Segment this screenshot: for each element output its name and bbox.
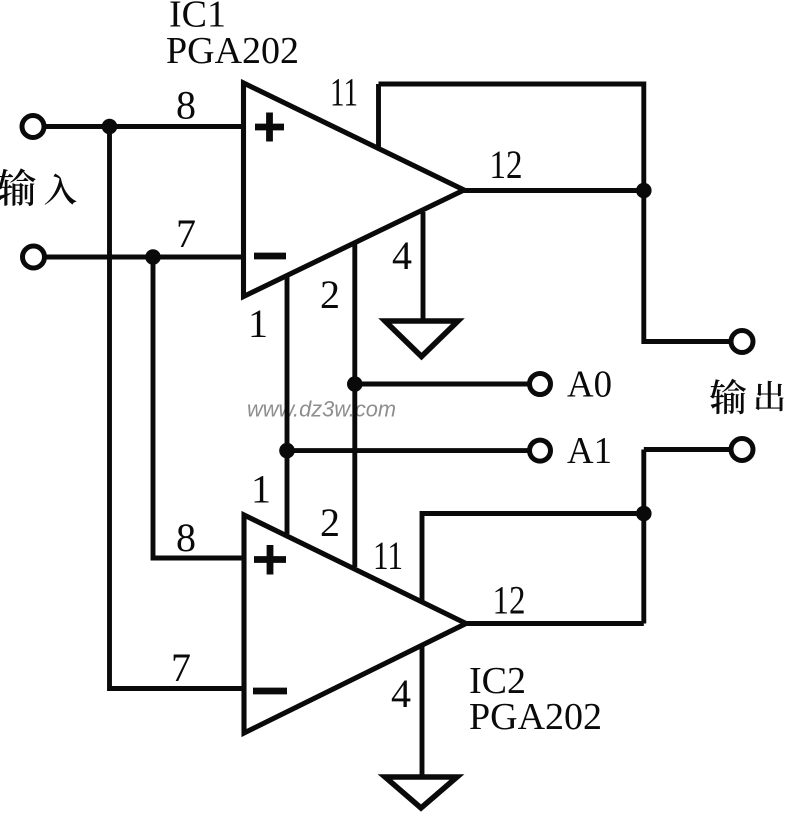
svg-text:12: 12 xyxy=(490,142,523,187)
junction dot A1 xyxy=(279,443,295,459)
junction dot input+ xyxy=(102,119,118,135)
op-amp U2 IC2 triangle xyxy=(244,515,466,733)
svg-text:12: 12 xyxy=(493,578,526,623)
wire pin1 IC1 to pin1 IC2 xyxy=(285,276,290,535)
svg-text:4: 4 xyxy=(391,671,411,716)
svg-text:A0: A0 xyxy=(567,364,612,406)
svg-text:1: 1 xyxy=(248,301,268,346)
junction dot IC1 output xyxy=(636,183,652,199)
wire pin2 IC1 to pin2 IC2 xyxy=(352,243,357,567)
minus sign IC1 xyxy=(254,253,286,260)
wire pin7 IC1 from input- xyxy=(45,255,243,260)
svg-text:11: 11 xyxy=(330,70,358,115)
wire pin8 IC1 from input+ xyxy=(45,124,243,129)
label 输出 output xyxy=(710,379,784,414)
svg-text:4: 4 xyxy=(392,233,412,278)
svg-text:8: 8 xyxy=(176,515,196,560)
svg-text:A1: A1 xyxy=(567,430,612,472)
plus sign IC2 xyxy=(254,556,286,563)
svg-text:www.dz3w.com: www.dz3w.com xyxy=(247,397,396,422)
terminal output IC1 xyxy=(731,331,753,353)
wire IC2 output vertical xyxy=(641,450,646,624)
wire pin11 IC2 stub and feedback top xyxy=(422,514,644,604)
terminal A0 xyxy=(530,374,551,395)
junction dot IC2 feedback xyxy=(636,506,652,522)
wire pin12 IC1 output xyxy=(463,188,644,193)
label 输入 input xyxy=(0,168,76,206)
svg-text:2: 2 xyxy=(320,272,340,317)
svg-text:2: 2 xyxy=(320,500,340,545)
svg-text:7: 7 xyxy=(176,211,196,256)
minus sign IC2 xyxy=(253,688,287,695)
terminal input+ xyxy=(22,116,44,138)
wire input- down to IC2 pin8 xyxy=(153,257,244,558)
wire input+ down to IC2 pin7 xyxy=(110,127,244,689)
junction dot input- xyxy=(145,249,161,265)
ground symbol IC2 xyxy=(385,777,457,808)
wire A1 xyxy=(287,448,530,453)
wire IC2 to output terminal xyxy=(644,447,730,452)
wire pin11 IC1 stub xyxy=(376,84,381,150)
terminal A1 xyxy=(530,440,551,461)
wire pin4 IC2 to ground xyxy=(420,646,425,777)
plus sign IC1 xyxy=(255,124,284,131)
terminal input- xyxy=(23,246,45,268)
svg-text:PGA202: PGA202 xyxy=(166,30,299,72)
wire A0 xyxy=(355,382,530,387)
wire pin4 IC1 to ground xyxy=(421,212,426,321)
svg-text:7: 7 xyxy=(171,645,191,690)
wire IC1 feedback loop and to output xyxy=(379,84,730,342)
svg-text:PGA202: PGA202 xyxy=(469,696,602,738)
ground symbol IC1 xyxy=(385,321,458,357)
svg-text:11: 11 xyxy=(373,533,403,578)
junction dot A0 xyxy=(347,376,363,392)
wire pin12 IC2 output xyxy=(466,621,644,626)
svg-text:8: 8 xyxy=(176,83,196,128)
svg-text:1: 1 xyxy=(251,467,271,512)
terminal output IC2 xyxy=(731,439,753,461)
op-amp U1 IC1 triangle xyxy=(244,83,465,297)
